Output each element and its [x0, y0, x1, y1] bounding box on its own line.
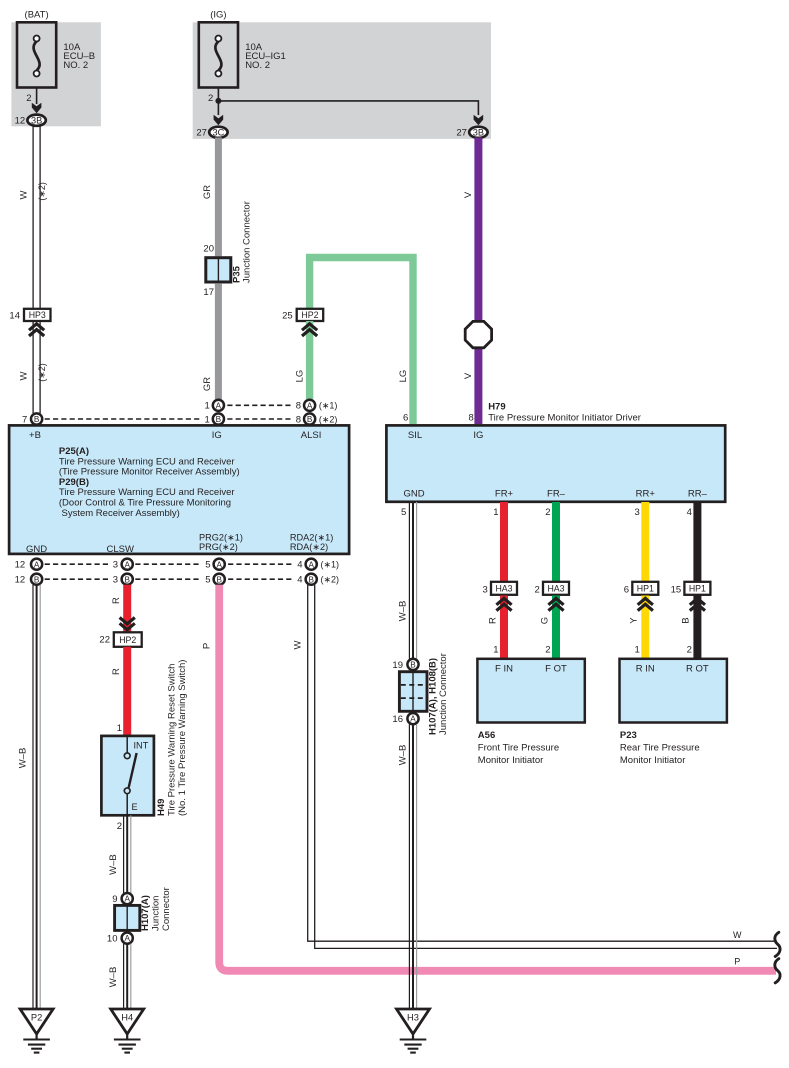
svg-text:HP2: HP2 — [119, 635, 136, 645]
svg-text:A: A — [216, 560, 222, 569]
svg-text:W: W — [18, 371, 29, 380]
svg-text:B: B — [308, 575, 314, 584]
initiator P23 block — [620, 659, 727, 723]
svg-text:RR–: RR– — [688, 488, 708, 499]
svg-text:Tire Pressure Monitor Initiato: Tire Pressure Monitor Initiator Driver — [488, 413, 641, 424]
svg-text:B: B — [34, 575, 40, 584]
svg-text:1: 1 — [635, 645, 640, 656]
svg-text:GND: GND — [403, 488, 424, 499]
svg-text:1: 1 — [205, 414, 210, 425]
svg-text:HA3: HA3 — [547, 584, 564, 594]
svg-text:1: 1 — [117, 723, 122, 734]
wire B (HP1 chain) — [693, 502, 701, 583]
connector 3C — [209, 127, 227, 138]
svg-text:G: G — [539, 617, 550, 624]
wire P (PRG, pink) — [219, 585, 776, 971]
junction connector P35 — [206, 258, 231, 282]
pin circle 16(A) — [407, 713, 418, 724]
svg-text:9: 9 — [112, 894, 117, 905]
wire R (HP2 to switch) — [123, 647, 131, 736]
pin circle 7(B) — [31, 413, 42, 424]
svg-text:(∗2): (∗2) — [37, 363, 47, 382]
wire G (HA3 chain) — [552, 502, 560, 583]
wire W-B (H107/H108 to H3) — [408, 724, 410, 1009]
break symbol P wire — [775, 959, 780, 983]
svg-text:Front Tire Pressure: Front Tire Pressure — [478, 743, 559, 754]
connector 2 HA3 — [543, 582, 569, 595]
svg-text:F OT: F OT — [545, 664, 567, 675]
svg-text:(No. 1 Tire Pressure Warning S: (No. 1 Tire Pressure Warning Switch) — [177, 660, 188, 816]
connector 3B (right) — [469, 127, 487, 138]
svg-text:SIL: SIL — [408, 430, 422, 441]
svg-text:E: E — [132, 802, 138, 812]
svg-text:Monitor Initiator: Monitor Initiator — [620, 755, 685, 766]
svg-text:GR: GR — [202, 185, 213, 199]
svg-text:(∗2): (∗2) — [319, 414, 338, 424]
wire W (RDA) vertical + horizontal — [308, 585, 777, 941]
svg-text:10: 10 — [107, 934, 118, 945]
svg-text:GR: GR — [202, 377, 213, 391]
svg-text:8: 8 — [469, 413, 474, 424]
dashed tie rows bottom — [45, 563, 110, 565]
pin circles 5(A) 5(B) PRG — [214, 559, 225, 570]
svg-text:4: 4 — [297, 575, 302, 586]
svg-text:W: W — [18, 190, 29, 199]
svg-text:V: V — [463, 191, 474, 198]
svg-text:INT: INT — [134, 741, 149, 751]
wire Y (HP1 chain) — [641, 502, 649, 583]
wire G lower — [552, 596, 560, 659]
svg-text:16: 16 — [392, 714, 403, 725]
connector 3 HA3 — [491, 582, 517, 595]
pin circles 4(A) 4(B) RDA — [306, 559, 317, 570]
svg-text:Connector: Connector — [161, 887, 172, 931]
svg-text:ALSI: ALSI — [301, 430, 322, 441]
svg-text:15: 15 — [671, 585, 682, 596]
svg-text:1: 1 — [493, 645, 498, 656]
junction dot node — [215, 98, 221, 104]
wire V (3B to H79 IG) — [474, 138, 482, 425]
svg-text:A: A — [307, 401, 313, 410]
junction connector H107(A),H108(B) — [399, 672, 427, 712]
svg-text:3B: 3B — [31, 116, 42, 126]
svg-text:Monitor Initiator: Monitor Initiator — [478, 755, 543, 766]
svg-text:GND: GND — [26, 544, 47, 555]
svg-text:6: 6 — [403, 413, 408, 424]
chevron up — [548, 598, 563, 604]
svg-text:A: A — [410, 715, 416, 724]
svg-text:19: 19 — [392, 660, 403, 671]
svg-text:8: 8 — [296, 414, 301, 425]
svg-text:12: 12 — [15, 116, 26, 127]
svg-text:2: 2 — [545, 507, 550, 518]
wire IG branch to right connector 3B — [218, 101, 478, 115]
svg-text:+B: +B — [29, 430, 41, 441]
svg-text:3: 3 — [113, 560, 118, 571]
svg-text:A: A — [216, 401, 222, 410]
ground P2 — [20, 1009, 53, 1034]
svg-text:25: 25 — [282, 310, 293, 321]
connector 22 HP2 — [114, 632, 142, 647]
svg-text:12: 12 — [15, 560, 26, 571]
svg-text:PRG(∗2): PRG(∗2) — [199, 542, 238, 552]
svg-text:14: 14 — [9, 310, 20, 321]
break symbol W wire — [775, 932, 780, 956]
svg-text:P23: P23 — [620, 730, 637, 741]
connector 15 HP1 — [684, 582, 710, 595]
svg-text:2: 2 — [208, 93, 213, 104]
wire W upper segment (BAT to HP3) — [32, 126, 34, 309]
svg-text:5: 5 — [205, 575, 210, 586]
svg-text:Junction Connector: Junction Connector — [242, 201, 253, 283]
ground H4 — [111, 1009, 144, 1034]
wire GR upper (3C to P35) — [215, 138, 222, 257]
wire R lower — [500, 596, 508, 659]
svg-text:(BAT): (BAT) — [25, 9, 49, 20]
svg-text:Tire Pressure Warning Reset Sw: Tire Pressure Warning Reset Switch — [167, 664, 178, 816]
svg-text:A: A — [124, 560, 130, 569]
svg-text:FR–: FR– — [547, 488, 566, 499]
svg-text:A: A — [34, 560, 40, 569]
ground H3 — [397, 1009, 430, 1034]
chevron up into HP2 — [302, 324, 317, 330]
svg-text:RR+: RR+ — [636, 488, 656, 499]
svg-text:B: B — [34, 415, 40, 424]
svg-text:Junction: Junction — [151, 896, 162, 931]
wire R (HA3 chain) — [500, 502, 508, 583]
svg-text:LG: LG — [294, 370, 305, 383]
svg-text:2: 2 — [545, 645, 550, 656]
wire W-B GND left (to P2) — [32, 585, 34, 1010]
wire LG (HP2 to ALSI) — [306, 321, 313, 399]
svg-text:P: P — [734, 956, 740, 966]
svg-text:R OT: R OT — [686, 664, 709, 675]
svg-text:HP3: HP3 — [29, 310, 46, 320]
svg-text:IG: IG — [212, 430, 222, 441]
BAT power panel (gray) — [11, 22, 101, 126]
svg-text:A: A — [308, 560, 314, 569]
dashed tie row B top (7B-1B) — [45, 418, 200, 420]
initiator A56 block — [477, 659, 584, 723]
pin circle 19(B) — [407, 659, 418, 670]
svg-text:W: W — [733, 930, 742, 940]
pin circles 12(A) 12(B) GND — [31, 559, 42, 570]
svg-text:R IN: R IN — [636, 664, 655, 675]
wire W-B (H107 to H4) — [123, 944, 125, 1010]
wire GR lower (P35 to IG pin) — [215, 283, 222, 399]
dashed tie row A top (1A-8A) — [227, 404, 290, 406]
svg-text:R: R — [487, 617, 498, 624]
svg-text:H4: H4 — [121, 1013, 133, 1023]
chevron up into HP3 — [29, 324, 44, 330]
svg-text:3B: 3B — [473, 128, 484, 138]
IG power panel (gray) — [193, 22, 491, 139]
svg-text:Junction Connector: Junction Connector — [438, 653, 449, 735]
svg-text:1: 1 — [205, 401, 210, 412]
arrow into connector 3B — [32, 103, 42, 114]
junction connector H107(A) small — [115, 905, 140, 930]
svg-text:2: 2 — [26, 93, 31, 104]
H79 initiator driver block — [386, 425, 725, 501]
svg-text:(∗1): (∗1) — [321, 560, 340, 570]
svg-text:HP1: HP1 — [637, 584, 654, 594]
fuse 10A ECU-B NO.2 — [17, 22, 56, 87]
svg-text:B: B — [307, 415, 313, 424]
svg-text:CLSW: CLSW — [106, 544, 133, 555]
svg-text:FR+: FR+ — [495, 488, 514, 499]
connector 14 HP3 — [24, 309, 51, 321]
svg-text:12: 12 — [15, 575, 26, 586]
svg-text:(∗1): (∗1) — [319, 401, 338, 411]
svg-text:B: B — [681, 617, 692, 623]
svg-text:3C: 3C — [213, 128, 225, 138]
svg-text:2: 2 — [687, 645, 692, 656]
pin circle 8(A) — [304, 400, 315, 411]
svg-text:P: P — [202, 643, 213, 649]
chevron down into HP2 — [120, 618, 135, 624]
svg-text:W–B: W–B — [108, 854, 119, 875]
wire W-B H79 GND (to H3) — [408, 502, 410, 659]
svg-text:27: 27 — [196, 128, 207, 139]
svg-text:RDA2(∗1): RDA2(∗1) — [290, 532, 333, 542]
svg-text:RDA(∗2): RDA(∗2) — [290, 542, 328, 552]
svg-text:W: W — [293, 640, 304, 649]
svg-text:H107(A), H108(B): H107(A), H108(B) — [428, 658, 439, 735]
ECU block P25/P29 — [9, 425, 349, 554]
pin circle 8(B) — [304, 413, 315, 424]
svg-text:F IN: F IN — [495, 664, 513, 675]
svg-text:System Receiver Assembly): System Receiver Assembly) — [62, 508, 180, 519]
pin circle 9(A) — [122, 893, 133, 904]
svg-text:W–B: W–B — [398, 601, 409, 622]
svg-text:4: 4 — [687, 507, 692, 518]
svg-text:HP2: HP2 — [301, 310, 318, 320]
svg-text:2: 2 — [535, 585, 540, 596]
svg-text:3: 3 — [483, 585, 488, 596]
svg-text:W–B: W–B — [398, 745, 409, 766]
svg-text:LG: LG — [398, 370, 409, 383]
svg-text:8: 8 — [296, 401, 301, 412]
wire Y lower — [641, 596, 649, 659]
noise filter octagon — [465, 321, 491, 347]
svg-text:A56: A56 — [478, 730, 495, 741]
pin circle 1(A) — [213, 400, 224, 411]
svg-text:R: R — [111, 597, 122, 604]
svg-text:H49: H49 — [156, 799, 167, 816]
svg-text:H3: H3 — [407, 1013, 419, 1023]
wire W-B (switch to H107) — [123, 815, 125, 893]
svg-text:IG: IG — [473, 430, 483, 441]
svg-text:5: 5 — [205, 560, 210, 571]
svg-text:A: A — [124, 895, 130, 904]
svg-text:7: 7 — [22, 414, 27, 425]
svg-text:B: B — [124, 575, 130, 584]
svg-text:W–B: W–B — [108, 967, 119, 988]
svg-text:3: 3 — [635, 507, 640, 518]
chevron up — [496, 598, 511, 604]
connector 25 HP2 — [297, 309, 324, 321]
svg-text:27: 27 — [456, 128, 467, 139]
svg-text:NO. 2: NO. 2 — [245, 60, 270, 71]
svg-text:V: V — [463, 372, 474, 379]
wire fuse IG down to junction dot — [217, 88, 219, 116]
svg-text:20: 20 — [203, 243, 214, 254]
svg-text:Y: Y — [629, 617, 640, 624]
svg-text:HA3: HA3 — [495, 584, 512, 594]
svg-text:B: B — [216, 575, 222, 584]
arrow into connector 3C — [214, 115, 224, 126]
svg-text:5: 5 — [401, 507, 406, 518]
svg-text:H107(A): H107(A) — [140, 895, 151, 931]
switch internals — [126, 736, 128, 753]
svg-text:1: 1 — [493, 507, 498, 518]
svg-text:22: 22 — [99, 634, 110, 645]
dashed tie row B top (1B-8B) — [227, 418, 290, 420]
svg-text:R: R — [111, 668, 122, 675]
svg-text:W–B: W–B — [18, 748, 29, 769]
wire B lower — [693, 596, 701, 659]
svg-text:Rear Tire Pressure: Rear Tire Pressure — [620, 743, 700, 754]
chevron up — [638, 598, 653, 604]
wire LG bracket (HP2 up over to SIL) — [310, 258, 413, 425]
svg-text:B: B — [216, 415, 222, 424]
pin circle 1(B) — [213, 413, 224, 424]
connector 6 HP1 — [632, 582, 658, 595]
svg-text:(∗2): (∗2) — [37, 182, 47, 201]
wire R (CLSW to HP2) — [123, 585, 131, 633]
svg-text:A: A — [124, 934, 130, 943]
switch H49 block — [101, 736, 153, 815]
wire W lower segment (HP3 to +B) — [32, 321, 34, 413]
svg-text:17: 17 — [203, 287, 214, 298]
svg-text:PRG2(∗1): PRG2(∗1) — [199, 532, 243, 542]
connector 3B (left) — [27, 115, 45, 126]
svg-text:6: 6 — [624, 585, 629, 596]
svg-text:(∗2): (∗2) — [321, 575, 340, 585]
svg-text:NO. 2: NO. 2 — [63, 60, 88, 71]
svg-text:H79: H79 — [488, 402, 505, 413]
svg-text:3: 3 — [113, 575, 118, 586]
svg-text:HP1: HP1 — [689, 584, 706, 594]
fuse 10A ECU-IG1 NO.2 — [199, 22, 238, 87]
pin circle 10(A) — [122, 933, 133, 944]
wire fuse BAT to connector 3B — [36, 88, 38, 105]
svg-text:2: 2 — [117, 821, 122, 832]
pin circles 3(A) 3(B) CLSW — [122, 559, 133, 570]
svg-text:(IG): (IG) — [210, 9, 226, 20]
arrow into connector 3B right — [474, 115, 484, 126]
svg-text:4: 4 — [297, 560, 302, 571]
chevron up — [690, 598, 705, 604]
svg-text:P2: P2 — [31, 1013, 42, 1023]
svg-text:B: B — [410, 661, 416, 670]
